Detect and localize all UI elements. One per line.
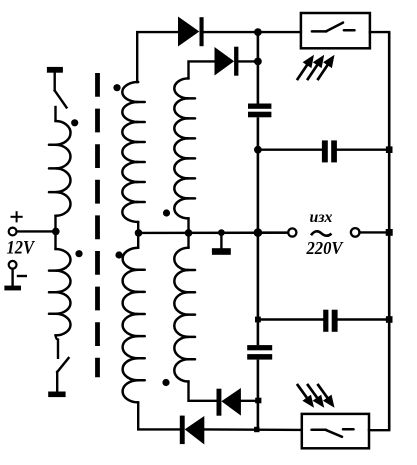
wire D2 cathode to node B xyxy=(238,60,258,62)
polarity dot W2 upper xyxy=(113,84,120,91)
switch S1 stem wire xyxy=(54,73,56,91)
wire node D to output terminal xyxy=(258,231,288,233)
secondary winding W3 lower half xyxy=(174,248,188,382)
wire W3 upper bottom lead xyxy=(187,218,189,233)
light arrows into lower box xyxy=(297,384,335,408)
minus sign xyxy=(17,275,27,277)
right rail wire xyxy=(388,32,391,430)
wire W3 top lead into lower winding xyxy=(187,233,189,248)
diode D4 triangle xyxy=(185,416,205,445)
switch S2 lower terminal wire xyxy=(56,372,58,392)
wire rail C2 to node H xyxy=(257,360,260,430)
node I junction square on right rail xyxy=(386,146,393,153)
svg-text:220V: 220V xyxy=(306,238,345,258)
W3 lower crossover ticks xyxy=(187,270,195,359)
node D output junction dot xyxy=(254,228,263,237)
wire primary lower to switch S2 xyxy=(56,335,59,357)
polarity dot W2 lower xyxy=(115,251,122,258)
wire W3 lower bottom lead to D3 xyxy=(189,382,217,401)
capacitor C3 plate 2 xyxy=(331,140,337,162)
wire center tap to primary lower winding xyxy=(54,231,56,249)
polarity dot primary lower xyxy=(75,250,82,257)
node A junction dot xyxy=(254,28,262,36)
diode D1 cathode bar xyxy=(200,17,204,46)
wire D3 anode to node G xyxy=(241,400,258,402)
node F center-tap stem junction dot xyxy=(218,229,225,236)
wire D4 anode to node H and lower box xyxy=(204,428,301,431)
wire upper box to right rail xyxy=(370,31,389,33)
node center tap junction dot xyxy=(52,228,60,236)
node G junction square xyxy=(255,398,261,404)
wire rail node A to C1 xyxy=(257,32,260,104)
ground stem under - terminal xyxy=(11,269,13,286)
center tap ground bar xyxy=(212,248,231,255)
capacitor C1 plate 1 xyxy=(248,104,271,109)
switch S2 lever (open) xyxy=(57,358,68,372)
lower box switch lever xyxy=(326,430,343,437)
wire W2 top lead into lower winding xyxy=(137,233,139,248)
wire S1 lower terminal to primary upper winding xyxy=(54,107,56,121)
node E junction square xyxy=(255,317,261,323)
photo-switch box lower xyxy=(302,414,369,448)
wire center tap to + terminal xyxy=(17,230,56,232)
light arrows into upper box xyxy=(297,55,335,80)
node K junction square on right rail xyxy=(386,316,393,323)
switch S1 lever (open) xyxy=(55,91,67,108)
capacitor C1 plate 2 xyxy=(248,112,271,118)
wire secondary mid tap bus xyxy=(139,231,289,234)
capacitor C4 plate 1 xyxy=(323,310,328,332)
wire primary upper to center tap xyxy=(54,216,56,232)
node C junction dot xyxy=(254,146,262,154)
center tap ground stem xyxy=(220,233,222,249)
wire secondary W3 top lead xyxy=(189,61,215,78)
photo-switch box upper xyxy=(301,13,370,48)
plus sign xyxy=(11,211,23,222)
capacitor C2 plate 1 xyxy=(247,345,272,350)
wire D1 cathode to node A xyxy=(204,31,258,33)
capacitor C4 plate 2 xyxy=(332,310,338,332)
polarity dot primary upper xyxy=(71,119,78,126)
transformer primary winding upper half xyxy=(56,121,71,216)
primary upper winding crossover ticks xyxy=(49,145,57,192)
diode D1 triangle xyxy=(178,17,199,47)
wire node C to C3 xyxy=(258,148,322,150)
terminal + (circle) xyxy=(9,228,17,236)
transformer primary winding lower half xyxy=(56,249,71,335)
wire W2 upper bottom lead xyxy=(137,222,139,233)
W2 upper crossover ticks xyxy=(137,102,145,202)
primary lower winding crossover ticks xyxy=(49,271,57,314)
diode D2 cathode bar xyxy=(234,47,238,76)
wire lower box to right rail xyxy=(369,429,389,431)
polarity dot W3 lower xyxy=(162,379,169,386)
svg-text:изх: изх xyxy=(310,209,333,226)
upper box switch right contact line xyxy=(344,29,355,32)
terminal bar bottom-left (emitter bar) xyxy=(48,392,65,398)
secondary winding W2 lower half xyxy=(123,248,139,403)
AC tilde symbol xyxy=(311,231,332,235)
node B junction dot xyxy=(254,58,262,66)
lower box switch left contact line xyxy=(312,429,327,432)
W2 lower crossover ticks xyxy=(137,270,145,381)
capacitor C3 plate 1 xyxy=(322,140,328,162)
node W3 mid junction dot xyxy=(185,229,193,237)
wire C3 to right rail xyxy=(337,148,389,150)
W3 upper crossover ticks xyxy=(187,98,195,198)
upper box switch lever xyxy=(326,23,343,32)
ground bar xyxy=(4,286,21,291)
diode D4 cathode bar xyxy=(180,416,185,445)
svg-text:12V: 12V xyxy=(7,238,36,259)
diode D3 triangle xyxy=(221,388,241,416)
secondary winding W3 upper half xyxy=(174,78,188,218)
output terminal right circle xyxy=(351,228,360,237)
polarity dot W3 upper xyxy=(163,209,170,216)
capacitor C2 plate 2 xyxy=(247,354,272,360)
transformer core (dashed) xyxy=(95,73,100,377)
wire right output terminal to right rail xyxy=(360,231,390,233)
wire C4 to right rail xyxy=(338,318,390,320)
secondary winding W2 upper half xyxy=(122,82,138,222)
lower box switch right contact line xyxy=(343,428,354,431)
wire W2 lower bottom lead to D4 xyxy=(138,402,180,429)
node H junction square xyxy=(254,427,259,432)
diode D2 triangle xyxy=(215,47,235,76)
upper box switch left contact line xyxy=(312,30,326,33)
wire node E to C4 xyxy=(258,318,323,320)
wire node A to upper photo-switch box xyxy=(258,31,301,33)
wire rail C1 to C2 xyxy=(257,117,260,345)
output terminal left circle xyxy=(288,228,296,236)
diode D3 cathode bar xyxy=(217,389,222,416)
terminal bar top-left (collector bar) xyxy=(47,67,63,73)
terminal - (circle) xyxy=(9,261,17,269)
node J junction square on right rail xyxy=(386,229,393,236)
wire secondary W2 top lead xyxy=(137,32,178,82)
node W2 mid junction dot xyxy=(135,229,143,237)
